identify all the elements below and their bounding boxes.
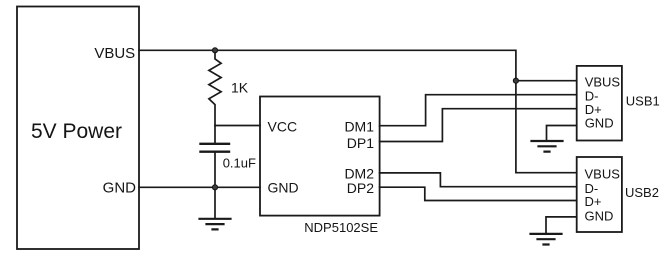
- svg-text:VCC: VCC: [268, 119, 298, 135]
- svg-text:DP2: DP2: [347, 180, 374, 196]
- wire DM2 to USB2 D-: [380, 173, 577, 187]
- junction node: GND / capacitor / ground: [212, 185, 217, 190]
- svg-text:GND: GND: [585, 208, 614, 223]
- ground symbol below capacitor: [200, 187, 231, 229]
- svg-text:DM1: DM1: [344, 119, 374, 135]
- wire VBUS main: power to right drop, down to USB2 VBUS: [139, 50, 577, 172]
- svg-text:NDP5102SE: NDP5102SE: [304, 220, 378, 235]
- svg-text:DP1: DP1: [347, 135, 374, 151]
- capacitor C1 0.1uF top stem: [214, 126, 216, 144]
- IC U1 NDP5102SE box: [260, 97, 380, 216]
- svg-text:0.1uF: 0.1uF: [223, 156, 256, 171]
- svg-text:D+: D+: [585, 194, 602, 209]
- 5V power source box: [17, 7, 139, 250]
- USB1 connector box: [577, 66, 622, 141]
- svg-text:5V Power: 5V Power: [31, 120, 122, 143]
- wire USB2 GND to ground: [546, 217, 577, 233]
- svg-text:DM2: DM2: [344, 165, 374, 181]
- svg-text:VBUS: VBUS: [585, 167, 621, 182]
- svg-text:GND: GND: [585, 116, 614, 131]
- capacitor C1 plates: [201, 144, 230, 152]
- wire USB1 GND to ground: [547, 126, 577, 141]
- wire DM1 to USB1 D-: [380, 95, 577, 126]
- USB2 connector box: [577, 157, 622, 232]
- svg-text:VBUS: VBUS: [94, 45, 135, 62]
- svg-text:1K: 1K: [231, 80, 249, 96]
- resistor R1 1K (vertical zigzag): [209, 50, 221, 125]
- ground symbol at USB1: [532, 141, 563, 152]
- wire VCC: resistor bottom to IC VCC pin: [215, 125, 260, 127]
- svg-text:GND: GND: [103, 180, 137, 197]
- wire DP1 to USB1 D+: [380, 109, 577, 142]
- wire GND: power to IC GND pin: [139, 186, 260, 188]
- wire VBUS branch to USB1: [516, 80, 577, 82]
- svg-text:GND: GND: [268, 180, 299, 196]
- svg-text:USB1: USB1: [626, 94, 660, 109]
- junction node: VBUS drop / USB1 VBUS: [513, 78, 518, 83]
- svg-text:USB2: USB2: [625, 185, 659, 200]
- capacitor C1 bottom stem: [214, 152, 216, 187]
- ground symbol at USB2: [531, 234, 562, 245]
- wire DP2 to USB2 D+: [380, 187, 577, 200]
- junction node: VBUS / resistor: [212, 48, 217, 53]
